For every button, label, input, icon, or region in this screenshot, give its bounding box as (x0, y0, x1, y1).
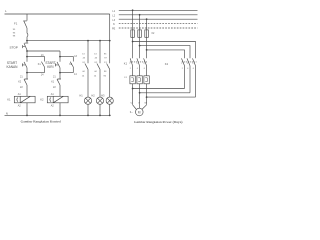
svg-text:A2: A2 (51, 105, 55, 108)
fuse phase 3 (145, 30, 149, 37)
svg-text:3~: 3~ (130, 110, 133, 114)
wire fuse out 3 (146, 37, 148, 58)
svg-text:KIRI: KIRI (47, 65, 53, 69)
lamp branch H1 vertical (87, 40, 89, 42)
svg-text:F2: F2 (152, 32, 155, 35)
wire crossover return middle (140, 92, 190, 94)
wire bus PE dashed (119, 27, 198, 29)
lamp H3 (106, 97, 113, 104)
svg-text:13: 13 (82, 53, 85, 55)
contact F1 trip lamp (107, 64, 110, 98)
wire coil K2 to N (59, 103, 61, 116)
contact K1 pole 1 (130, 58, 132, 75)
node tap (26, 56, 28, 58)
svg-text:98: 98 (104, 71, 107, 73)
contact K2 pole 2 (187, 58, 190, 92)
stop button NC (23, 41, 29, 51)
overload F1 box 2 (137, 76, 142, 84)
svg-text:N: N (113, 23, 115, 26)
linkage K1 dashed (130, 61, 148, 63)
svg-text:21: 21 (20, 75, 23, 78)
wire fuse out 1 (132, 37, 134, 58)
svg-text:K1: K1 (51, 81, 55, 84)
overload F1 box 3 (144, 76, 149, 84)
contact K1 pole 2 (137, 58, 140, 75)
svg-text:14: 14 (74, 73, 77, 76)
node tap K2 p1 (132, 41, 134, 43)
svg-text:4: 4 (137, 68, 138, 70)
svg-text:F1: F1 (14, 22, 18, 26)
node junction pre-stop (26, 40, 28, 42)
node rejoin kiri (59, 72, 61, 74)
svg-text:K2: K2 (40, 97, 44, 101)
start kiri NO pushbutton (55, 62, 60, 79)
wire bus N dashed (119, 23, 198, 25)
node L1 tap (132, 9, 134, 11)
svg-text:L1: L1 (112, 10, 115, 13)
wire drop phase 1 (132, 10, 134, 30)
wire holding rejoin kiri (60, 72, 73, 74)
node L3 tap (146, 18, 148, 20)
coil K2 (47, 96, 68, 103)
svg-text:3: 3 (187, 63, 188, 65)
node rejoin (26, 72, 28, 74)
wire holding tap K1 (27, 57, 45, 62)
wire bus L1 (119, 9, 198, 11)
svg-text:5: 5 (143, 63, 144, 65)
svg-text:L2: L2 (112, 14, 115, 17)
wire overload out 2 (139, 84, 141, 108)
wire holding rejoin (27, 72, 45, 74)
overload F1 box 1 (130, 76, 135, 84)
svg-text:H3: H3 (101, 93, 105, 97)
breaker F1 NC contact (23, 21, 27, 28)
fuse phase 1 (131, 30, 135, 37)
linkage K2 dashed (182, 61, 197, 63)
svg-text:L: L (5, 9, 7, 13)
svg-text:F1: F1 (104, 62, 107, 64)
wire top bus L (5, 13, 110, 15)
svg-text:N: N (6, 111, 8, 115)
contact K1 NC interlock (57, 79, 61, 96)
svg-text:M: M (138, 110, 141, 114)
wire crossover inner (147, 50, 185, 58)
svg-text:2: 2 (182, 68, 183, 70)
svg-text:44: 44 (82, 71, 85, 73)
wire bus L3 (119, 18, 198, 20)
svg-text:97: 97 (104, 58, 107, 60)
wire crossover middle (140, 46, 190, 59)
wire fuse out 2 (139, 37, 141, 58)
svg-text:L3: L3 (112, 19, 115, 22)
wire drop phase 2 (139, 15, 141, 30)
svg-text:A1: A1 (51, 93, 55, 96)
svg-text:Gambar Rangkaian Power (Daya): Gambar Rangkaian Power (Daya) (134, 120, 183, 124)
svg-text:KANAN: KANAN (7, 65, 19, 69)
svg-text:1: 1 (181, 63, 182, 65)
svg-text:95: 95 (13, 29, 16, 31)
wire overload out 3 (146, 84, 148, 105)
svg-text:14: 14 (41, 73, 44, 76)
wire crossover return outer (147, 96, 196, 98)
svg-text:A2: A2 (18, 105, 22, 108)
svg-text:K1: K1 (124, 61, 128, 65)
wire main vertical drop (26, 14, 28, 21)
fuse phase 2 (138, 30, 142, 37)
contact K1 aux NO holding (41, 62, 44, 73)
svg-text:A1: A1 (18, 93, 22, 96)
lamp H2 (96, 97, 103, 104)
wire motor feed 1 (133, 105, 137, 110)
svg-text:96: 96 (13, 32, 16, 34)
wire overload out 1 (132, 84, 134, 105)
wire motor feed 3 (142, 105, 147, 110)
wire bus L2 (119, 14, 198, 16)
overload trip arc (26, 28, 29, 41)
wire lamp feed line (27, 40, 110, 42)
contact K2 pole 1 (182, 58, 185, 88)
svg-text:95: 95 (104, 53, 107, 55)
svg-text:2: 2 (130, 68, 131, 70)
svg-text:K2: K2 (95, 62, 98, 64)
svg-text:K1: K1 (38, 63, 42, 66)
node L2 tap (139, 14, 141, 16)
svg-text:3: 3 (136, 63, 137, 65)
node tap K2 p3 (146, 49, 148, 51)
svg-text:43: 43 (83, 58, 86, 60)
svg-text:5: 5 (192, 63, 193, 65)
svg-text:K2: K2 (18, 81, 22, 84)
svg-text:98: 98 (13, 36, 16, 38)
lamp branch H2 vertical (99, 40, 101, 42)
contact K2 aux NO holding (70, 62, 73, 73)
contact K2 pole 3 (193, 58, 196, 97)
svg-text:Gambar Rangkaian Kontrol: Gambar Rangkaian Kontrol (21, 119, 62, 123)
contact K1 pole 3 (144, 58, 147, 75)
svg-text:14: 14 (82, 75, 85, 77)
node coil K1 N (26, 115, 28, 117)
svg-text:22: 22 (20, 86, 23, 89)
svg-text:K2: K2 (165, 62, 169, 66)
svg-text:H2: H2 (91, 93, 95, 97)
svg-text:K1: K1 (83, 62, 86, 64)
motor M (136, 108, 144, 116)
svg-text:H1: H1 (79, 93, 83, 97)
svg-text:4: 4 (187, 68, 188, 70)
node junction post-stop (26, 50, 28, 52)
start kiri branch vertical (59, 51, 61, 62)
coil K1 (14, 96, 35, 103)
svg-text:13: 13 (74, 55, 77, 58)
wire coil K1 to N (26, 103, 28, 116)
svg-text:K1: K1 (7, 97, 11, 101)
contact K2 aux lamp (97, 41, 100, 97)
svg-text:STOP: STOP (10, 45, 18, 49)
wire crossover outer (133, 42, 196, 59)
svg-text:14: 14 (94, 75, 97, 77)
node tap K2 p2 (139, 45, 141, 47)
lamp branch H3 vertical from top bus (109, 14, 111, 63)
node coil K2 N (59, 115, 61, 117)
svg-text:PE: PE (112, 28, 116, 31)
svg-text:6: 6 (144, 68, 145, 70)
wire drop phase 3 (146, 19, 148, 30)
contact K2 NC interlock (24, 79, 28, 96)
contact K1 aux lamp (85, 41, 88, 97)
svg-text:44: 44 (94, 71, 97, 73)
svg-text:13: 13 (94, 53, 97, 55)
lamp H1 (84, 97, 91, 104)
svg-text:6: 6 (193, 68, 194, 70)
svg-text:1: 1 (129, 63, 130, 65)
svg-text:43: 43 (95, 58, 98, 60)
wire crossover return inner (133, 88, 185, 90)
svg-text:W: W (144, 103, 147, 105)
wire post-stop to start kiri branch (27, 50, 60, 52)
svg-text:F1: F1 (124, 77, 127, 79)
node tap kiri (59, 56, 61, 58)
wire holding tap K2 (60, 57, 73, 62)
start kanan NO pushbutton (22, 51, 27, 79)
wire bottom bus N (5, 114, 111, 116)
svg-text:96: 96 (104, 75, 107, 77)
svg-text:22: 22 (53, 86, 56, 89)
svg-text:21: 21 (53, 75, 56, 78)
